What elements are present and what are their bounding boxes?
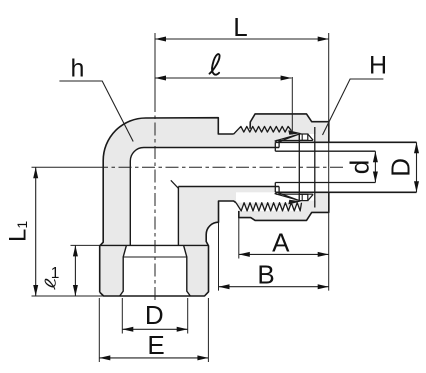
void notch between body and nut (white): [219, 201, 237, 223]
svg-text:1: 1: [51, 265, 60, 282]
bore channel outline: [130, 148, 279, 246]
seat line bottom: [276, 193, 313, 195]
ferrule back edge crossing tube: [298, 134, 300, 201]
label ell: [210, 54, 220, 75]
body outline stroke: [100, 118, 234, 293]
nut cone slant bottom: [308, 194, 313, 200]
back ferrule box bottom: [299, 194, 308, 200]
label L1 rotated: [5, 221, 32, 242]
nut inner face crossing tube: [314, 127, 316, 208]
dimension E: [99, 357, 208, 359]
socket cavity (white): [120, 245, 191, 296]
svg-text:L: L: [233, 12, 247, 42]
ferrule tip top (solid): [288, 130, 301, 135]
label D right rotated: [386, 158, 416, 177]
white gap above nut rim: [236, 211, 251, 218]
white relief band above bottom thread: [236, 192, 302, 202]
nut cone slant top: [308, 134, 313, 140]
seat line top: [276, 139, 313, 141]
dimension D bottom: [122, 328, 187, 330]
centerline horizontal: [32, 166, 96, 168]
dimension A: [239, 253, 329, 255]
svg-text:H: H: [369, 52, 387, 80]
dimension B: [219, 286, 329, 288]
ell extension: [291, 77, 293, 135]
tube bore d lines: [275, 150, 375, 152]
svg-text:h: h: [71, 55, 85, 83]
dimension L1: [35, 167, 37, 296]
ferrule sleeve cone top: [275, 134, 299, 142]
svg-text:d: d: [345, 160, 375, 174]
nut outline bottom: [239, 192, 329, 220]
centerline vertical: [154, 33, 156, 99]
ferrule tip bottom (solid): [288, 200, 301, 205]
svg-text:B: B: [257, 260, 274, 290]
counterbore shoulder verticals: [278, 142, 280, 147]
dimension ell: [155, 77, 292, 79]
dimension d right: [374, 151, 376, 182]
label d rotated: [345, 160, 375, 174]
L extension right, continues down as nut face edge and to B: [328, 33, 330, 291]
svg-text:D: D: [145, 300, 164, 330]
bore channel (white): [130, 148, 279, 246]
tube outer lines: [275, 141, 416, 143]
ferrule sleeve cone bottom: [275, 192, 299, 200]
leader H: [323, 79, 384, 135]
body bottom-right outline: void walls and fillet: [100, 201, 236, 296]
label l1 rotated: [45, 279, 55, 289]
tube counterbore region (white): [275, 142, 416, 192]
nut bottom half (gray): [239, 192, 329, 220]
svg-text:D: D: [386, 158, 416, 177]
drill cone chamfer at bore corner: [171, 180, 179, 188]
bottom face extension: [32, 295, 104, 297]
dimension l1: [74, 245, 76, 296]
svg-text:E: E: [147, 330, 164, 360]
nut U1 top half (gray): [250, 114, 329, 142]
socket cavity outline: [100, 244, 209, 246]
top thread zigzag: [234, 126, 292, 134]
dimension D right: [416, 142, 418, 192]
back ferrule box top: [299, 134, 308, 140]
elbow body silhouette: [100, 118, 302, 296]
leader h: [59, 81, 133, 142]
bottom thread zigzag: [236, 203, 302, 211]
svg-text:A: A: [272, 228, 290, 258]
tube end verticals: [274, 142, 276, 151]
nut outline top: [250, 114, 329, 142]
